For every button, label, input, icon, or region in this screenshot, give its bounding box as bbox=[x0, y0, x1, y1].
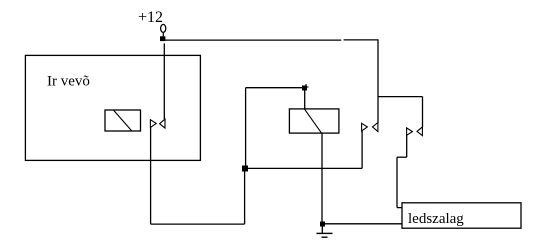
node dot at (304,88) bbox=[302, 84, 309, 91]
node dot at (245,168) bbox=[242, 166, 248, 172]
label ledszalag bbox=[408, 211, 464, 227]
power terminal circle bbox=[161, 24, 166, 37]
wire: bottom run y=224 from x=150.6 to x=244.6 bbox=[151, 223, 245, 225]
LED strip box (ledszalag) bbox=[402, 203, 521, 228]
ground node dot bbox=[320, 222, 325, 227]
label Ir vevő bbox=[47, 74, 90, 90]
wire: branch y=96.5 from x=378 to x=422.5 bbox=[378, 96, 423, 98]
IR receiver module box (Ir vevő) bbox=[25, 55, 200, 160]
wire: horizontal y=87.7 to relay K2 node bbox=[246, 87, 305, 89]
connector pair J1: socket arrow left bbox=[160, 119, 165, 128]
wire: ground rail y=223.8 to led strip box bbox=[322, 223, 402, 225]
connector pair A: socket arrow left bbox=[373, 123, 378, 132]
connector pair B: plug arrow right bbox=[407, 128, 413, 135]
connector pair B: socket arrow left bbox=[417, 127, 422, 136]
wire: vertical x=362 up to connector A plug bbox=[361, 131, 363, 168]
wire: into led strip box y=207.6 bbox=[397, 207, 402, 209]
node dot at +12 terminal bbox=[160, 36, 165, 41]
wire: top rail y=40 from +12 node to right vertical bbox=[163, 39, 379, 41]
wire: jog left y=157.2 bbox=[397, 156, 407, 158]
relay coil K1 (inside IR receiver) bbox=[105, 110, 141, 131]
wire: vertical x=244.6 from bottom run up to node bbox=[244, 168, 246, 224]
wire: relay K2 bottom down to ground node x=322 bbox=[321, 133, 323, 224]
svg-text:Ir vevõ: Ir vevõ bbox=[47, 74, 90, 90]
wire: right vertical x=378 from top rail down to connector A bbox=[377, 40, 379, 122]
wire: vertical x=304.7 from node into relay K2 bbox=[304, 88, 306, 109]
connector pair A: plug arrow right bbox=[362, 123, 368, 131]
wire: vertical x=245.6 from node up to relay branch bbox=[245, 88, 247, 169]
relay coil K2 bbox=[289, 109, 339, 133]
wire: horizontal y=168.1 from node to connector A drop bbox=[245, 167, 363, 169]
wire: from connector B plug down x=406.7 bbox=[406, 135, 408, 157]
wire: vertical x=164.3 from +12 node into IR receiver box bbox=[163, 43, 165, 119]
connector pair J1 (inside IR receiver): plug arrow right bbox=[150, 120, 156, 128]
ground symbol bbox=[317, 224, 333, 237]
wire: vertical x=397 down to led strip bbox=[396, 157, 398, 207]
power terminal +12 label bbox=[138, 9, 163, 26]
wire: from J1 plug down x=150.6 bbox=[150, 128, 152, 225]
wire: vertical x=422.5 down to connector B bbox=[422, 97, 424, 127]
svg-text:ledszalag: ledszalag bbox=[408, 211, 464, 227]
svg-text:+12: +12 bbox=[138, 9, 163, 26]
